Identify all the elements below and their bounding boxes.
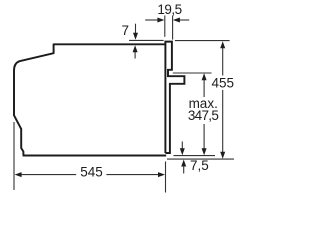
arrowhead pointing up (dimension 455): [220, 41, 225, 48]
extension line at appliance bottom (upper reference): [174, 155, 216, 157]
upper arrow stem (dimension 7): [135, 24, 137, 35]
extension line left (dimension 19,5): [164, 16, 166, 37]
extension line at frame top, right side (dimension 455): [175, 40, 230, 42]
front frame and door profile (front trim, step, control tab, door face, door bottom): [165, 41, 185, 153]
dimension line lower segment (max. 347,5): [203, 124, 205, 149]
oven body outline (side view: top, chamfered rear, back edge, bottom-left step): [14, 44, 165, 155]
arrowhead pointing up (dimension 7,5): [181, 160, 186, 167]
extension line at frame bottom (dimension max. 347,5): [173, 72, 212, 74]
lower arrow stem (dimension 7): [134, 52, 136, 59]
svg-text:19,5: 19,5: [157, 2, 181, 17]
oven body bottom edge: [23, 155, 167, 157]
arrowhead pointing left (19,5): [173, 18, 180, 23]
dimension line right segment (19,5): [179, 19, 189, 21]
dimension line left segment (545): [21, 174, 76, 176]
lower arrow stem (dimension 7,5): [183, 166, 185, 174]
dimension line right segment (545): [106, 174, 159, 176]
extension line right (dimension 19,5): [172, 16, 174, 40]
svg-text:7,5: 7,5: [190, 158, 209, 173]
svg-text:347,5: 347,5: [188, 108, 218, 123]
arrowhead pointing down (dimension max. 347,5): [202, 148, 207, 155]
extension line lower reference (niche floor): [167, 158, 234, 160]
svg-text:7: 7: [122, 23, 130, 38]
arrowhead pointing down (dimension 7,5): [180, 148, 185, 155]
arrowhead pointing up (dimension 7): [133, 45, 138, 52]
arrowhead pointing up (dimension max. 347,5): [202, 73, 207, 80]
dimension line lower segment (455): [222, 90, 224, 152]
dimension line upper segment (max. 347,5): [203, 80, 205, 97]
svg-text:545: 545: [80, 164, 103, 179]
upper arrow stem (dimension 7,5): [181, 142, 183, 149]
svg-text:455: 455: [212, 75, 235, 90]
extension line at frame top level (dimension 7): [129, 39, 164, 41]
dimension line upper segment (455): [222, 48, 224, 76]
arrowhead pointing right (545): [158, 172, 165, 177]
dimension line left segment (19,5): [145, 19, 158, 21]
extension line rear (dimension 545): [13, 122, 15, 190]
arrowhead pointing down (dimension 7): [133, 33, 138, 40]
arrowhead pointing right (19,5): [157, 18, 164, 23]
arrowhead pointing down (dimension 455): [220, 152, 225, 159]
arrowhead pointing left (545): [15, 172, 22, 177]
extension line front (dimension 545): [165, 162, 167, 193]
